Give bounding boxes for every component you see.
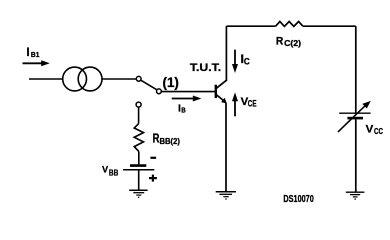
svg-text:R: R xyxy=(153,131,160,145)
switch S1 throw contact position 1 xyxy=(157,89,162,94)
wire RC to right rail xyxy=(303,25,356,27)
label VCE xyxy=(241,96,257,109)
svg-text:DS10070: DS10070 xyxy=(283,194,314,205)
wire VCC to ground xyxy=(355,119,357,191)
ground (emitter) xyxy=(216,192,236,199)
label IC xyxy=(241,52,250,67)
resistor RC(2) zigzag xyxy=(276,22,303,27)
arrow IB (base current) xyxy=(172,96,202,102)
wire emitter vertical xyxy=(225,103,227,191)
wire input left xyxy=(29,78,63,80)
wire switch to base xyxy=(161,91,215,93)
svg-text:V: V xyxy=(366,124,374,136)
wire switch throw 2 down to RBB xyxy=(138,107,140,124)
minus sign VBB xyxy=(150,157,156,159)
arrow VCE (upward) xyxy=(232,92,238,116)
transistor Q1 base bar xyxy=(215,85,217,98)
svg-text:BB: BB xyxy=(109,167,118,177)
ground (VBB) xyxy=(129,190,147,197)
wire collector vertical xyxy=(225,26,227,80)
plus sign VBB xyxy=(149,175,157,182)
svg-text:CC: CC xyxy=(374,126,383,136)
resistor RBB(2) zigzag vertical xyxy=(134,124,143,152)
transistor Q1 collector stroke xyxy=(216,80,227,89)
label IB xyxy=(178,103,186,114)
label RBB(2) xyxy=(153,131,181,146)
battery VBB negative plate (thick short) xyxy=(130,164,146,167)
svg-text:CE: CE xyxy=(248,99,257,109)
current source G1 (two overlapping circles) xyxy=(63,67,102,91)
svg-text:R: R xyxy=(276,35,283,47)
arrow IC (collector current, downward) xyxy=(232,50,238,73)
variable arrow across VCC xyxy=(338,101,371,132)
arrow IB1 (current direction) xyxy=(23,60,50,66)
svg-text:B1: B1 xyxy=(31,50,40,59)
label VCC xyxy=(366,124,383,137)
svg-text:I: I xyxy=(26,45,29,59)
wire source to switch xyxy=(102,78,136,80)
label RC(2) xyxy=(276,35,301,48)
wire right rail down to VCC xyxy=(355,26,357,112)
wire top horizontal to RC xyxy=(226,25,275,27)
svg-text:B: B xyxy=(181,105,186,114)
switch S1 throw contact position 2 xyxy=(136,102,141,107)
battery VBB positive plate (thin long) xyxy=(123,169,154,171)
label IB1 xyxy=(26,45,39,59)
svg-text:T.U.T.: T.U.T. xyxy=(190,62,221,74)
svg-text:BB(2): BB(2) xyxy=(160,137,181,146)
battery VCC positive plate (thin long) xyxy=(339,112,370,114)
label VBB xyxy=(102,164,118,177)
wire VBB to ground xyxy=(138,171,140,190)
switch S1 pole contact xyxy=(136,76,141,81)
ground (right rail) xyxy=(346,192,365,199)
switch S1 blade xyxy=(141,80,157,90)
svg-text:(1): (1) xyxy=(163,75,179,90)
transistor Q1 emitter stroke with arrow xyxy=(216,95,227,104)
svg-text:C(2): C(2) xyxy=(284,38,301,48)
battery VCC negative plate (thick short) xyxy=(347,117,363,120)
svg-text:C: C xyxy=(244,55,250,66)
wire RBB to VBB battery xyxy=(138,151,140,164)
